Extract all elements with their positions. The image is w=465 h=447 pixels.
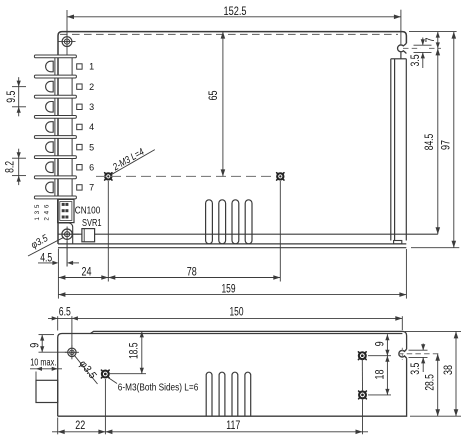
- dimension 28.5 (side right): [437, 354, 439, 417]
- bottom-left corner bracket outline: [58, 223, 73, 244]
- notch center dash line (side): [398, 353, 441, 355]
- svg-text:9: 9: [373, 341, 387, 346]
- svg-text:4.5: 4.5: [40, 250, 52, 264]
- svg-text:117: 117: [226, 418, 240, 432]
- svg-text:6.5: 6.5: [59, 305, 71, 319]
- terminal block separator plates x8: [34, 55, 76, 58]
- svg-text:2-M3 L=4: 2-M3 L=4: [111, 146, 147, 173]
- svg-text:97: 97: [439, 140, 453, 150]
- louver vent slots (top view): [206, 200, 213, 244]
- svg-text:9: 9: [28, 343, 42, 348]
- side view right mounting notch: [399, 349, 407, 358]
- corner mounting hole bottom-left: [66, 227, 68, 267]
- svg-text:18: 18: [373, 369, 387, 379]
- label phi3.5 (side view) with leader: [74, 355, 97, 384]
- svg-text:152.5: 152.5: [224, 4, 247, 18]
- svg-text:6-M3(Both Sides) L=6: 6-M3(Both Sides) L=6: [118, 382, 199, 394]
- top view case outline: [58, 32, 406, 244]
- svg-text:3: 3: [89, 102, 94, 112]
- svg-text:4: 4: [89, 122, 94, 132]
- svg-text:5: 5: [34, 204, 41, 208]
- svg-text:8.2: 8.2: [2, 161, 16, 173]
- svg-text:5: 5: [89, 142, 94, 152]
- terminal screws x7: [46, 61, 54, 72]
- potentiometer SVR1 box: [82, 229, 95, 242]
- top cover dashed edge: [60, 33, 398, 35]
- right wall bottom foot: [394, 241, 402, 244]
- dimension 6.5 (side): [57, 316, 59, 330]
- dimension 9 (side right): [368, 355, 391, 357]
- dimension 18.5 (side): [109, 373, 146, 375]
- center mounting hole M3 left (2-M3): [104, 172, 112, 180]
- label 2-M3 L=4 with leader: [112, 150, 155, 175]
- top view right-top mounting slot (flange hook): [398, 43, 407, 53]
- case bottom lip line: [58, 247, 406, 249]
- svg-text:CN100: CN100: [75, 206, 101, 217]
- svg-text:38: 38: [441, 365, 455, 375]
- bottom lip extension line (right): [411, 247, 459, 249]
- center mounting hole M3 right: [276, 172, 284, 180]
- svg-text:SVR1: SVR1: [82, 218, 102, 229]
- svg-text:7: 7: [89, 183, 94, 193]
- svg-text:28.5: 28.5: [423, 374, 437, 391]
- svg-text:6: 6: [44, 204, 51, 208]
- terminal pin squares x7: [77, 64, 82, 69]
- dimension 97 (right): [453, 32, 455, 248]
- svg-text:24: 24: [82, 264, 92, 278]
- dimension 18 (side right): [368, 394, 391, 396]
- svg-text:1: 1: [89, 62, 94, 72]
- case bottom outer edge line: [58, 243, 406, 245]
- svg-text:3.5: 3.5: [408, 362, 422, 374]
- svg-text:φ3.5: φ3.5: [29, 233, 50, 251]
- dimension 4.5: [38, 262, 57, 264]
- svg-text:4: 4: [44, 210, 51, 214]
- svg-text:18.5: 18.5: [127, 342, 141, 359]
- svg-text:22: 22: [75, 418, 85, 432]
- case bottom inner edge line: [58, 233, 438, 235]
- svg-text:84.5: 84.5: [422, 134, 436, 151]
- svg-text:78: 78: [187, 264, 197, 278]
- label phi3.5 (top view) with leader: [28, 237, 64, 256]
- svg-text:10 max.: 10 max.: [30, 358, 56, 369]
- side hole M3 lower: [101, 370, 110, 379]
- terminal block body rails: [54, 58, 56, 196]
- slot center dash line (top right): [403, 47, 421, 49]
- dimension 22 (side bottom): [57, 418, 59, 435]
- svg-text:6: 6: [89, 162, 94, 172]
- svg-text:65: 65: [206, 90, 220, 100]
- dimension 9 (side left): [39, 334, 55, 336]
- dimension 3.5 (side right): [409, 349, 428, 351]
- svg-text:9.5: 9.5: [4, 90, 18, 102]
- dimension 8.2 (terminal gap): [12, 157, 26, 159]
- dimension 38 (side right): [405, 330, 461, 332]
- side hole front (target symbol): [65, 351, 79, 353]
- svg-text:3: 3: [34, 210, 41, 214]
- dimension 150 (side): [401, 316, 403, 330]
- dimension 152.5 (top): [67, 16, 401, 18]
- louver vent slots (side view): [206, 372, 212, 416]
- dimension 3.5 (top right): [414, 44, 432, 46]
- corner mounting hole top-left (target symbol): [66, 10, 68, 55]
- svg-text:2: 2: [44, 217, 51, 221]
- dimension 9.5 (terminal pitch): [12, 86, 26, 88]
- svg-text:7: 7: [423, 37, 437, 42]
- svg-text:159: 159: [222, 281, 236, 295]
- dimension 84.5 (right): [437, 48, 439, 234]
- side view cover top line: [91, 331, 407, 349]
- svg-text:150: 150: [230, 305, 244, 319]
- svg-text:3.5: 3.5: [408, 54, 422, 66]
- side holes M3 right pair: [358, 351, 367, 360]
- svg-text:1: 1: [34, 217, 41, 221]
- svg-text:2: 2: [89, 82, 94, 92]
- center dash line between M3 holes: [96, 175, 276, 177]
- AC inlet connector (side view): [36, 380, 58, 402]
- side view case outline: [58, 334, 403, 417]
- right side wall bar of case (top view): [390, 59, 392, 241]
- label 6-M3(Both Sides) L=6 with leader: [107, 377, 117, 384]
- dimension 7 (top right): [409, 31, 457, 33]
- dimension 65 (vertical): [222, 32, 224, 177]
- side view right edge lower / bottom edge: [58, 358, 407, 416]
- dimension 159: [58, 294, 406, 296]
- dimension 24: [57, 249, 59, 299]
- connector CN100: [58, 199, 74, 222]
